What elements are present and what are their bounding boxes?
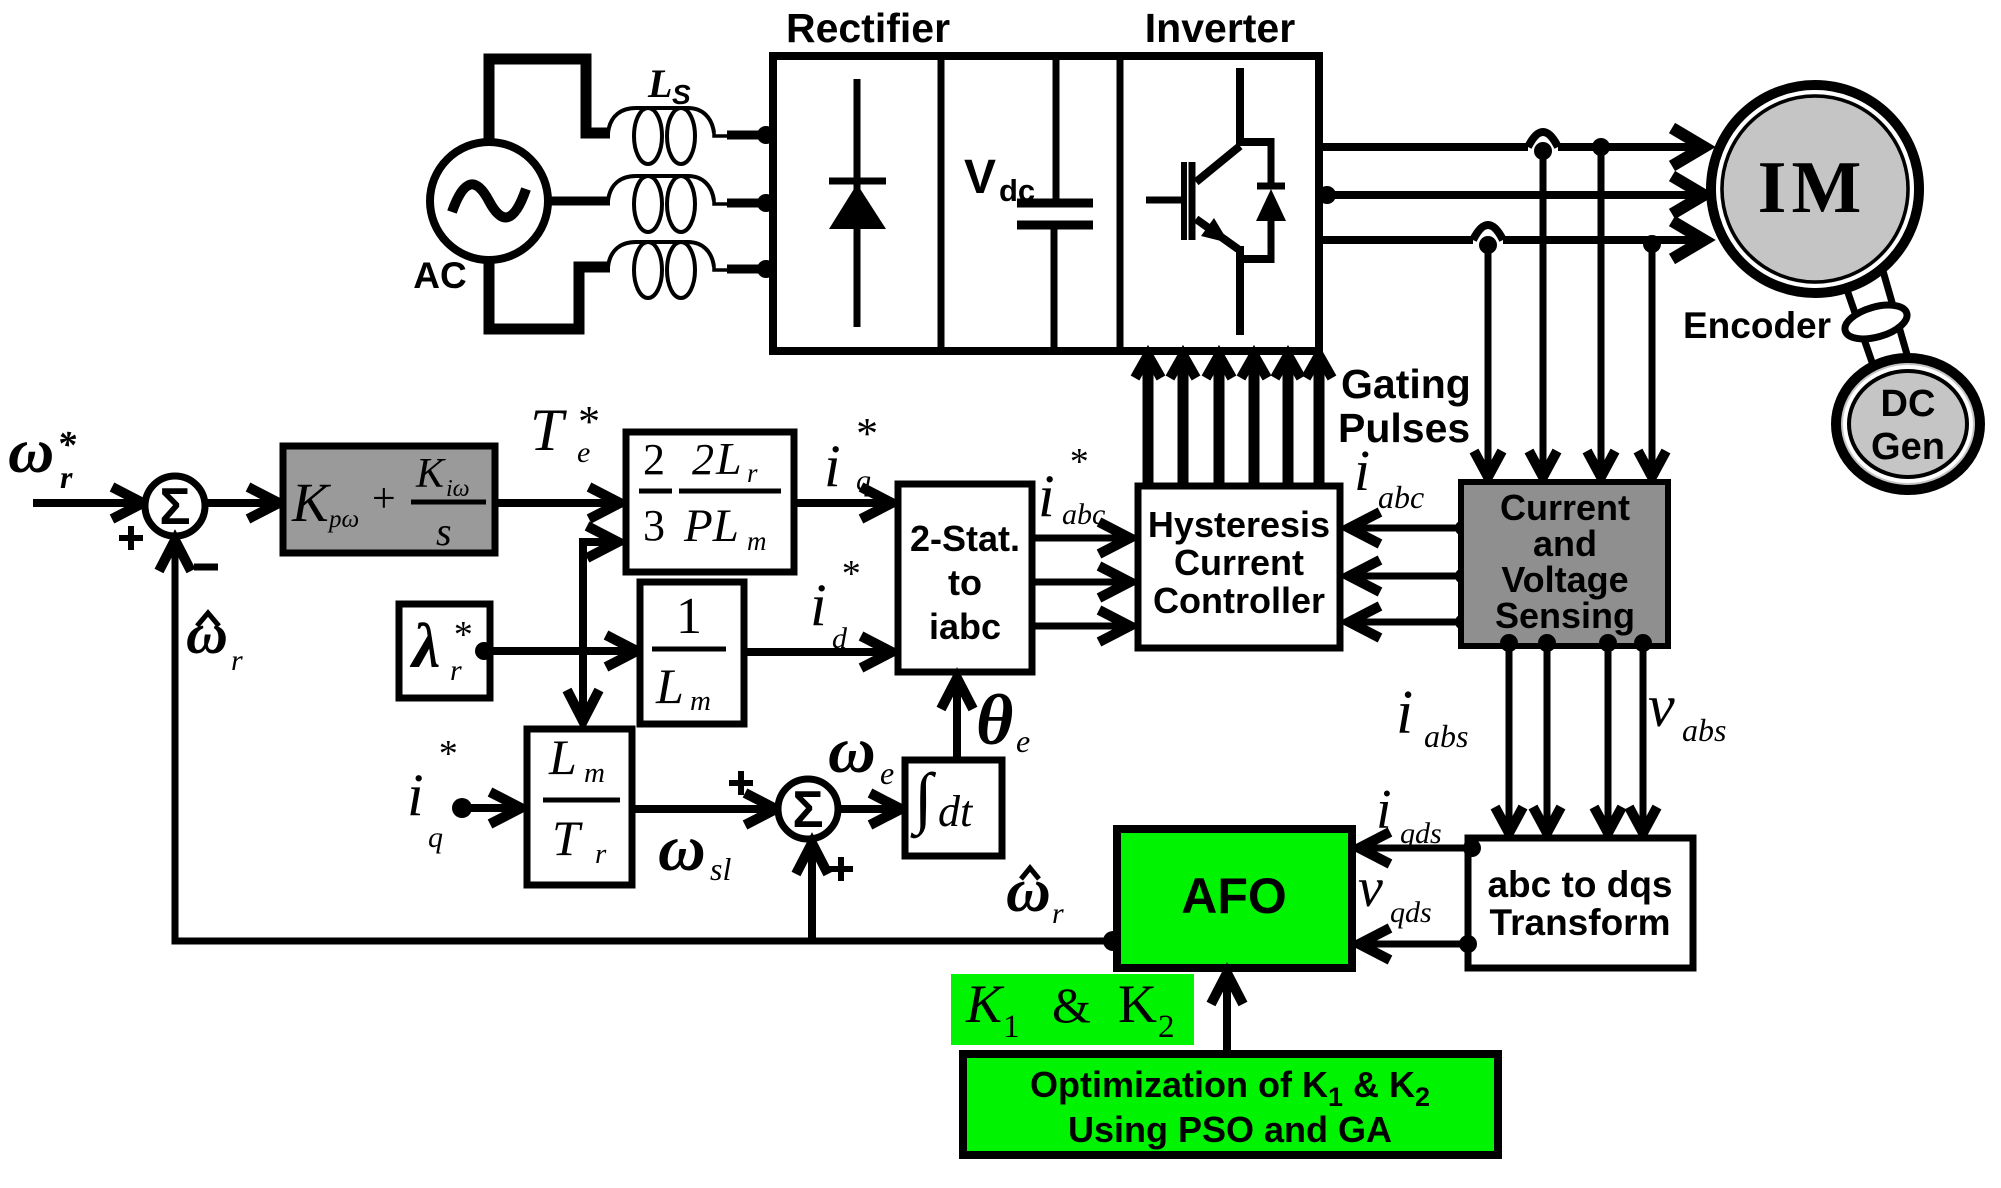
label iq star slip input xyxy=(407,733,456,854)
induction motor IM xyxy=(1711,85,1919,293)
wire AC bottom jog xyxy=(489,258,610,329)
voltage tap c xyxy=(1638,235,1666,477)
svg-text:ω: ω xyxy=(828,714,876,787)
svg-text:i: i xyxy=(810,572,827,638)
summing junction sum2 xyxy=(778,779,838,839)
svg-text:λ: λ xyxy=(409,610,440,681)
label Vdc xyxy=(964,151,1035,208)
svg-text:PL: PL xyxy=(683,500,739,552)
svg-text:sl: sl xyxy=(710,851,731,887)
wire coil b to rectifier xyxy=(727,194,775,212)
label omega e xyxy=(828,714,894,791)
svg-text:v: v xyxy=(1358,857,1383,919)
label plus sum2 left xyxy=(729,771,753,795)
svg-text:v: v xyxy=(1648,673,1675,739)
svg-text:K: K xyxy=(291,472,332,533)
svg-text:Transform: Transform xyxy=(1490,902,1671,943)
wire AC mid xyxy=(547,197,610,206)
wire torque block to 2stat xyxy=(794,487,892,519)
svg-text:*: * xyxy=(452,614,471,656)
label Gating Pulses xyxy=(1338,361,1471,451)
label omega hat r left xyxy=(186,601,243,677)
block 1 over Lm xyxy=(640,582,744,724)
svg-text:r: r xyxy=(747,458,758,488)
svg-text:ω: ω xyxy=(8,415,54,486)
svg-text:r: r xyxy=(231,644,243,677)
svg-text:Optimization of K1 & K2: Optimization of K1 & K2 xyxy=(1030,1064,1430,1112)
label i abs xyxy=(1396,679,1468,754)
DC generator xyxy=(1836,358,1980,490)
svg-text:dt: dt xyxy=(938,787,974,836)
svg-text:Rectifier: Rectifier xyxy=(786,5,950,51)
svg-text:r: r xyxy=(1052,897,1064,930)
svg-text:*: * xyxy=(854,409,876,458)
svg-text:m: m xyxy=(584,757,605,789)
svg-text:1: 1 xyxy=(1003,1009,1020,1045)
summing junction sum1 xyxy=(145,476,205,536)
svg-text:Current: Current xyxy=(1174,542,1304,583)
torque to iq block xyxy=(626,432,794,572)
svg-text:Using PSO and GA: Using PSO and GA xyxy=(1068,1109,1392,1150)
phase wire b inverter to IM xyxy=(1318,176,1704,214)
label plus sum1 xyxy=(119,526,143,550)
label omega sl xyxy=(658,812,731,887)
wire PI to torque block xyxy=(495,487,620,519)
wires sensing to hysteresis xyxy=(1349,512,1471,638)
svg-text:Sensing: Sensing xyxy=(1495,595,1635,636)
svg-text:3: 3 xyxy=(643,501,665,550)
wire AC top jog xyxy=(489,59,610,146)
wire coil c to rectifier xyxy=(727,260,775,278)
svg-text:i: i xyxy=(1396,679,1413,747)
freewheel diode D2 xyxy=(1256,138,1286,263)
svg-text:*: * xyxy=(1068,441,1087,483)
svg-text:m: m xyxy=(747,526,767,556)
svg-text:Encoder: Encoder xyxy=(1683,305,1831,346)
integrator block xyxy=(905,759,1002,856)
svg-text:e: e xyxy=(1016,723,1030,759)
svg-text:*: * xyxy=(437,733,456,775)
svg-text:DC: DC xyxy=(1881,383,1936,425)
label K1 and K2 xyxy=(951,974,1194,1045)
wire lambda to 1Lm xyxy=(475,635,637,667)
label minus sum1 xyxy=(194,564,218,571)
svg-text:L: L xyxy=(715,433,742,484)
phase wire c inverter to IM xyxy=(1319,221,1704,259)
capacitor C1 xyxy=(1017,56,1093,351)
svg-text:AC: AC xyxy=(413,255,466,296)
label LS xyxy=(647,61,691,110)
svg-text:abc: abc xyxy=(1378,479,1424,515)
svg-text:Σ: Σ xyxy=(792,781,823,839)
flux reference block lambda xyxy=(399,604,490,698)
AFO block xyxy=(1117,829,1352,968)
svg-text:θ: θ xyxy=(976,680,1013,760)
wires 2stat to hysteresis xyxy=(1032,522,1130,642)
svg-text:e: e xyxy=(577,436,590,469)
hysteresis current controller block xyxy=(1138,486,1340,648)
svg-text:+: + xyxy=(372,476,396,522)
svg-text:i: i xyxy=(1354,438,1370,503)
svg-text:2: 2 xyxy=(643,435,665,484)
svg-text:qds: qds xyxy=(1390,896,1432,929)
svg-text:*: * xyxy=(840,553,859,595)
label iq star xyxy=(824,409,876,499)
wire iq to LmTr xyxy=(452,792,521,824)
wire integrator to 2stat theta xyxy=(941,678,973,760)
inductor coil phase c xyxy=(608,242,730,298)
svg-text:r: r xyxy=(595,838,607,870)
svg-text:T: T xyxy=(530,397,567,463)
svg-text:m: m xyxy=(690,685,711,717)
current and voltage sensing block xyxy=(1461,482,1668,646)
svg-text:ω: ω xyxy=(658,812,706,885)
block 2stat to iabc xyxy=(898,484,1032,672)
label omega hat r right xyxy=(1006,857,1064,930)
wire omega feedback into sum2 xyxy=(796,843,828,941)
inductor coil phase b xyxy=(608,176,730,232)
svg-text:i: i xyxy=(824,433,841,499)
svg-text:2: 2 xyxy=(1158,1009,1175,1045)
label id star xyxy=(810,553,859,655)
diode D1 xyxy=(829,79,886,327)
svg-text:iabc: iabc xyxy=(929,606,1001,647)
svg-text:Gen: Gen xyxy=(1871,426,1945,468)
svg-text:e: e xyxy=(880,755,894,791)
voltage tap a xyxy=(1587,138,1615,477)
gating pulse arrows xyxy=(1135,355,1332,486)
svg-text:2-Stat.: 2-Stat. xyxy=(910,518,1020,559)
svg-text:S: S xyxy=(672,79,691,110)
wire LmTr to sum2 xyxy=(632,793,776,825)
svg-text:Σ: Σ xyxy=(159,478,190,536)
label iabc star xyxy=(1038,441,1105,531)
optimization block xyxy=(963,1054,1498,1155)
svg-text:Hysteresis: Hysteresis xyxy=(1148,504,1330,545)
label theta e xyxy=(976,680,1030,760)
phase wire a inverter to IM xyxy=(1319,128,1704,166)
svg-text:Gating: Gating xyxy=(1341,361,1471,407)
block Lm over Tr xyxy=(527,729,632,885)
AC source xyxy=(430,142,548,260)
wire sum1 to PI xyxy=(205,487,279,519)
wire 1Lm to 2stat xyxy=(744,636,892,668)
wire transform to AFO iqds xyxy=(1359,832,1481,864)
svg-text:V: V xyxy=(964,151,996,204)
feedback wire AFO to sum1 xyxy=(159,540,1123,951)
inductor coil phase a xyxy=(608,108,730,164)
wire transform to AFO vqds xyxy=(1359,928,1477,960)
svg-text:K: K xyxy=(415,451,446,497)
label i qds xyxy=(1376,779,1442,850)
svg-text:iω: iω xyxy=(446,476,470,502)
svg-text:AFO: AFO xyxy=(1181,868,1287,924)
svg-text:&: & xyxy=(1052,977,1091,1033)
svg-text:i: i xyxy=(1038,463,1055,529)
svg-text:1: 1 xyxy=(676,588,702,645)
svg-text:abc to dqs: abc to dqs xyxy=(1487,864,1672,905)
svg-text:Voltage: Voltage xyxy=(1501,559,1628,600)
svg-text:Inverter: Inverter xyxy=(1145,5,1295,51)
label omega_r star reference xyxy=(8,415,77,495)
svg-text:r: r xyxy=(60,459,73,495)
svg-text:abs: abs xyxy=(1424,718,1468,754)
svg-text:s: s xyxy=(436,509,452,554)
wire input to sum1 xyxy=(33,487,143,519)
label plus sum2 bottom xyxy=(829,857,853,881)
current tap a xyxy=(1529,142,1557,477)
svg-text:L: L xyxy=(655,658,684,714)
svg-text:IM: IM xyxy=(1758,147,1867,229)
svg-text:K: K xyxy=(1118,974,1157,1034)
label v qds xyxy=(1358,857,1432,929)
divider dclink inverter xyxy=(1117,56,1124,351)
PI controller block xyxy=(283,446,495,554)
svg-text:L: L xyxy=(548,729,577,785)
wire sum2 to integrator xyxy=(838,793,901,825)
svg-text:i: i xyxy=(407,762,424,828)
svg-text:and: and xyxy=(1533,523,1597,564)
svg-text:abs: abs xyxy=(1682,712,1726,748)
current tap c xyxy=(1474,236,1502,477)
svg-text:pω: pω xyxy=(327,506,359,533)
svg-text:K: K xyxy=(965,974,1005,1034)
svg-text:Controller: Controller xyxy=(1153,580,1325,621)
svg-text:T: T xyxy=(552,810,583,866)
svg-text:2: 2 xyxy=(692,435,714,484)
wire coil a to rectifier xyxy=(727,126,775,144)
IGBT Q1 xyxy=(1146,68,1271,335)
svg-text:to: to xyxy=(948,562,982,603)
svg-text:Current: Current xyxy=(1500,487,1630,528)
shaft IM to DC gen xyxy=(1841,271,1911,365)
wire optimization to AFO xyxy=(1211,973,1243,1054)
divider rectifier dclink xyxy=(938,56,945,351)
svg-text:L: L xyxy=(647,61,672,106)
flux branch wire to torque block xyxy=(567,526,618,721)
label v abs xyxy=(1648,673,1726,748)
label Te star xyxy=(530,397,598,469)
label iabc sensed xyxy=(1354,438,1424,515)
abc to dqs transform block xyxy=(1468,838,1693,968)
svg-text:q: q xyxy=(428,821,443,854)
wires sensing to transform xyxy=(1495,634,1657,833)
svg-text:r: r xyxy=(450,654,462,687)
converter outer box xyxy=(773,56,1319,351)
